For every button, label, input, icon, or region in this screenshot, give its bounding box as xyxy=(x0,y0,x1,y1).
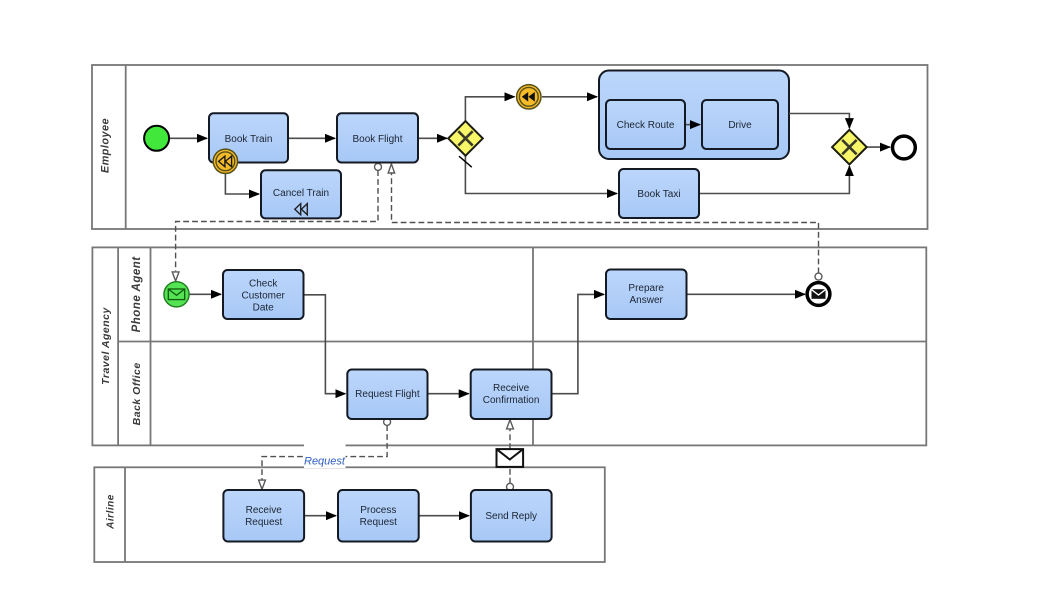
svg-text:Back Office: Back Office xyxy=(131,362,143,425)
svg-text:Send Reply: Send Reply xyxy=(485,511,537,522)
svg-text:Cancel Train: Cancel Train xyxy=(273,188,329,199)
svg-text:Employee: Employee xyxy=(100,118,112,173)
svg-text:Check Route: Check Route xyxy=(617,120,675,131)
svg-text:Book Train: Book Train xyxy=(225,134,273,145)
svg-text:Request Flight: Request Flight xyxy=(355,389,420,400)
svg-text:Phone Agent: Phone Agent xyxy=(131,256,143,333)
svg-text:Request: Request xyxy=(304,456,346,468)
svg-text:Book Taxi: Book Taxi xyxy=(637,189,680,200)
svg-text:Airline: Airline xyxy=(106,494,117,530)
svg-text:Drive: Drive xyxy=(728,120,752,131)
svg-text:Book Flight: Book Flight xyxy=(352,134,402,145)
svg-text:PrepareAnswer: PrepareAnswer xyxy=(628,283,664,306)
svg-text:ReceiveRequest: ReceiveRequest xyxy=(245,505,282,528)
svg-text:Travel Agency: Travel Agency xyxy=(100,306,112,384)
svg-text:ProcessRequest: ProcessRequest xyxy=(360,505,397,528)
